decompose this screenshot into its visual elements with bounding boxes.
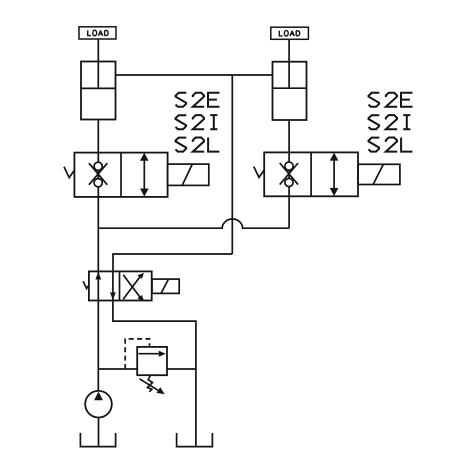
label S2E S2I S2L (right block) <box>369 93 413 152</box>
cylinder right <box>273 62 307 120</box>
wire to lower valve top port <box>113 254 232 271</box>
valve V1 spring <box>64 167 74 178</box>
valve V3 solenoid <box>152 279 179 293</box>
load box L2 (right) <box>271 27 309 39</box>
wire relief valve to tank line <box>167 368 196 370</box>
relief valve RV1 adjustable spring <box>140 375 165 394</box>
relief valve RV1 pilot dashed line <box>125 339 149 369</box>
valve V3 spring <box>83 281 89 288</box>
relief valve RV1 body <box>137 347 167 375</box>
tank T2 (right) <box>177 433 213 447</box>
valve V3 body (lower 4/2 directional valve) <box>89 271 152 300</box>
wire top horizontal between cylinders <box>116 74 273 76</box>
valve V2 wire through check position <box>288 152 290 196</box>
wire load L2 to cylinder <box>288 39 290 61</box>
wire left vertical valve V1 through lower valve to pump <box>97 197 99 391</box>
wire crossing vertical from top line <box>231 75 233 254</box>
valve V2 solenoid <box>358 164 400 184</box>
wire right valve V2 bottom down <box>288 196 290 228</box>
cylinder left <box>81 62 116 120</box>
valve V1 solenoid <box>168 164 209 185</box>
wire pump line to relief valve <box>98 368 137 370</box>
valve V3 up arrow (left position) <box>95 272 101 280</box>
valve V3 down flow line and arrow <box>110 271 116 300</box>
valve V1 pilot check symbol <box>89 162 107 187</box>
wire left cylinder bottom to valve S2 left <box>97 120 99 153</box>
valve V2 spring <box>254 167 264 178</box>
wire right cylinder bottom to valve S2 right <box>288 120 290 152</box>
wire valve V3 right bottom port to tank line <box>113 301 196 447</box>
wire pump to tank <box>98 418 100 447</box>
valve V3 crossed arrows (right position) <box>123 273 144 301</box>
pump P1 <box>85 391 112 418</box>
wire load L1 to cylinder <box>97 39 99 62</box>
valve V1 body (upper left 2-position valve) <box>74 153 167 197</box>
valve V1 flow arrow (right position) <box>140 153 149 197</box>
valve V2 pilot check symbol <box>280 162 298 187</box>
wire horizontal with crossover hop <box>98 219 289 228</box>
valve V2 body (upper right 2-position valve) <box>264 152 358 196</box>
valve V1 wire through check position <box>97 153 99 197</box>
valve V2 flow arrow (right position) <box>330 153 339 196</box>
tank T1 (left) <box>80 433 115 447</box>
load box L1 (left) <box>79 27 116 39</box>
label S2E S2I S2L (left block) <box>176 93 220 152</box>
